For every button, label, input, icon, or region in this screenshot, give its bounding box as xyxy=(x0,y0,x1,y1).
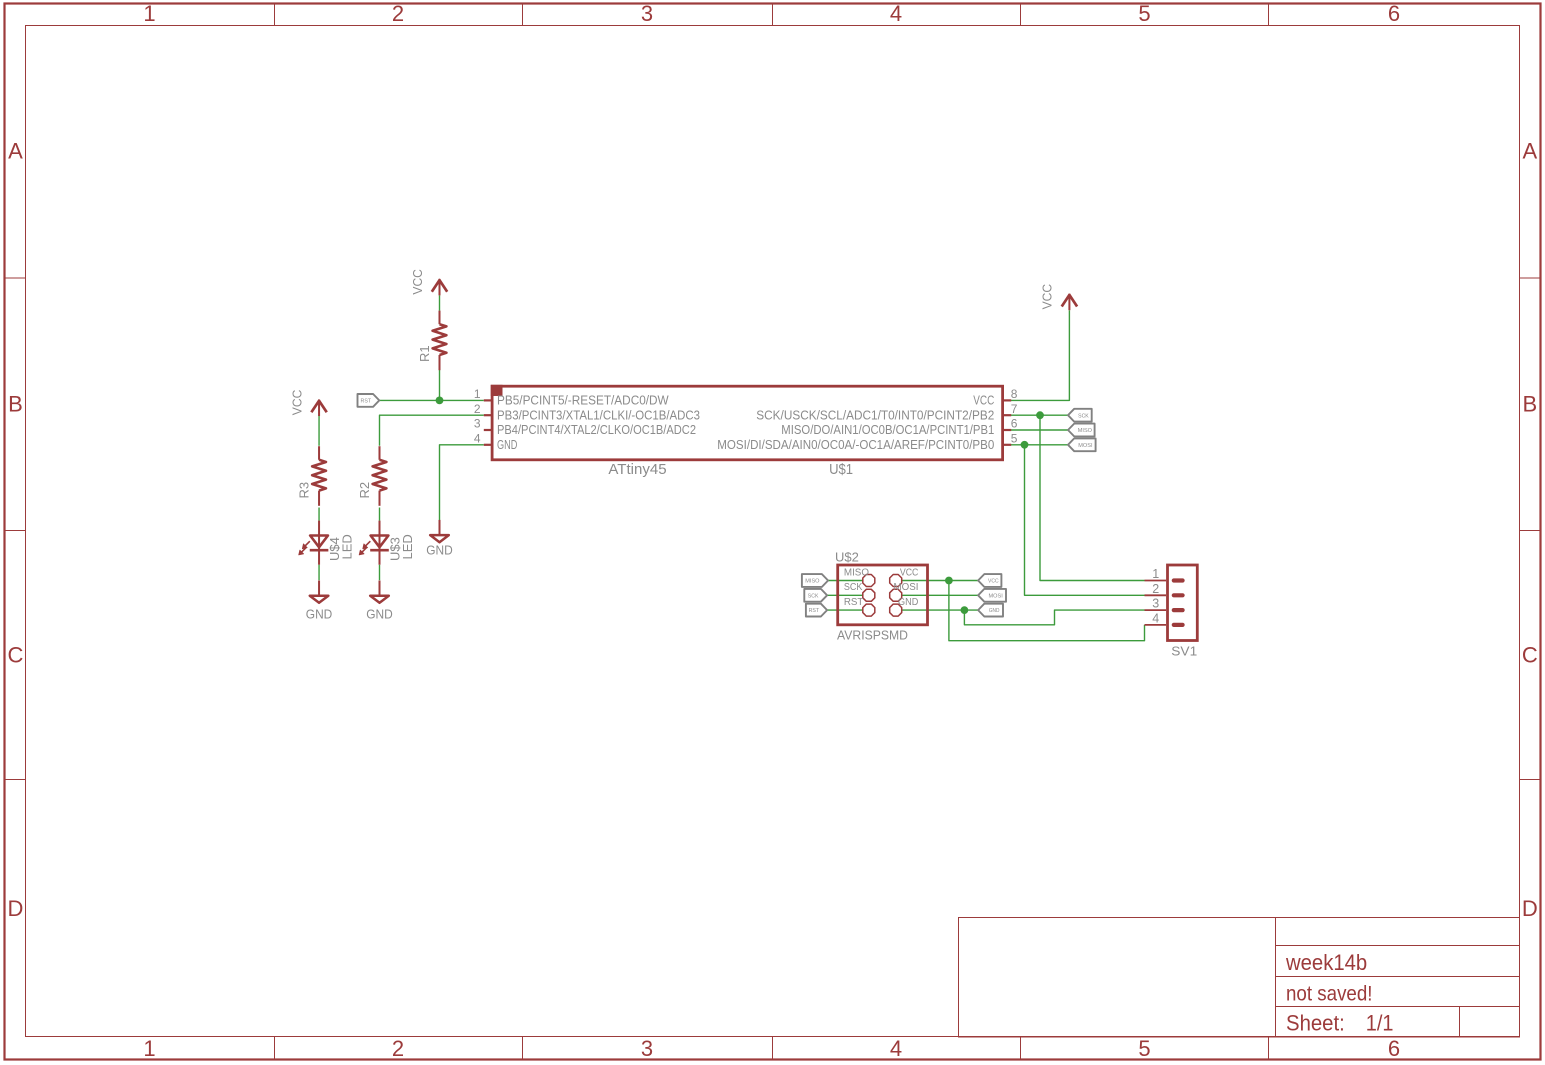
wire RST net to IC pin 1 xyxy=(379,399,484,401)
wire IC pin 7 to SCK flag xyxy=(1011,414,1069,416)
svg-text:SCK: SCK xyxy=(1078,413,1089,419)
junction pin5 MOSI xyxy=(1021,441,1029,449)
svg-text:SV1: SV1 xyxy=(1171,644,1197,659)
svg-text:6: 6 xyxy=(1388,1036,1400,1061)
svg-text:MISO: MISO xyxy=(1078,428,1093,434)
junction VCC net xyxy=(945,577,953,585)
svg-text:R1: R1 xyxy=(417,345,432,362)
svg-text:MOSI: MOSI xyxy=(989,593,1004,599)
svg-text:LED: LED xyxy=(340,534,355,559)
svg-text:PB5/PCINT5/-RESET/ADC0/DW: PB5/PCINT5/-RESET/ADC0/DW xyxy=(497,394,669,408)
LED U$4 xyxy=(299,521,355,565)
svg-text:GND: GND xyxy=(366,606,393,621)
junction GND net xyxy=(961,606,969,614)
svg-text:RST: RST xyxy=(809,608,820,614)
svg-text:3: 3 xyxy=(1152,597,1159,611)
net flag VCC at U$2 xyxy=(978,574,1001,587)
supply VCC (above R1) xyxy=(410,269,447,295)
svg-text:1: 1 xyxy=(143,1,155,26)
net flag RST at U$2 xyxy=(806,604,827,617)
svg-text:1: 1 xyxy=(1152,567,1159,581)
svg-text:ATtiny45: ATtiny45 xyxy=(608,461,666,478)
net flag MISO at IC pin 6 xyxy=(1068,424,1095,437)
svg-text:MOSI: MOSI xyxy=(1078,443,1093,449)
svg-text:1: 1 xyxy=(474,387,481,401)
net flag RST at IC pin 1 xyxy=(358,394,380,407)
ground GND under LED U$3 xyxy=(366,581,393,622)
wire MISO flag to U$2 xyxy=(828,580,862,582)
svg-text:SCK/USCK/SCL/ADC1/T0/INT0/PCIN: SCK/USCK/SCL/ADC1/T0/INT0/PCINT2/PB2 xyxy=(756,408,994,422)
svg-text:3: 3 xyxy=(474,417,481,431)
IC U$1 ATtiny45 xyxy=(474,385,1018,478)
svg-text:VCC: VCC xyxy=(410,269,425,295)
ground GND at IC pin 4 xyxy=(426,520,453,558)
wire MOSI net to SV1 pin 2 xyxy=(1025,445,1145,596)
wire LED U$4 to GND xyxy=(318,565,320,581)
svg-text:R2: R2 xyxy=(357,482,372,499)
resistor R1 xyxy=(417,311,446,371)
junction pin7 SCK xyxy=(1036,411,1044,419)
svg-text:GND: GND xyxy=(898,597,918,608)
svg-text:MOSI/DI/SDA/AIN0/OC0A/-OC1A/AR: MOSI/DI/SDA/AIN0/OC0A/-OC1A/AREF/PCINT0/… xyxy=(717,438,994,452)
svg-text:2: 2 xyxy=(392,1036,404,1061)
wire IC pin 8 to VCC xyxy=(1011,310,1070,400)
svg-text:D: D xyxy=(1522,896,1538,921)
svg-text:1/1: 1/1 xyxy=(1366,1010,1394,1035)
svg-text:R3: R3 xyxy=(297,482,312,499)
svg-text:SCK: SCK xyxy=(844,582,863,593)
wire IC pin 5 to MOSI flag xyxy=(1011,444,1069,446)
svg-text:PB4/PCINT4/XTAL2/CLKO/OC1B/ADC: PB4/PCINT4/XTAL2/CLKO/OC1B/ADC2 xyxy=(497,423,696,437)
svg-text:4: 4 xyxy=(1152,612,1159,626)
svg-text:5: 5 xyxy=(1138,1036,1150,1061)
wire U$2 GND to flag xyxy=(902,609,978,611)
svg-text:4: 4 xyxy=(474,432,481,446)
svg-text:A: A xyxy=(8,139,23,164)
svg-text:2: 2 xyxy=(474,402,481,416)
svg-text:not saved!: not saved! xyxy=(1286,982,1373,1005)
resistor R3 xyxy=(297,446,326,506)
wire R1 to pin1 junction xyxy=(439,370,441,400)
svg-text:3: 3 xyxy=(641,1036,653,1061)
svg-text:SCK: SCK xyxy=(808,593,819,599)
net flag MISO at U$2 xyxy=(802,574,828,587)
svg-text:GND: GND xyxy=(306,606,333,621)
svg-text:VCC: VCC xyxy=(900,567,919,578)
svg-text:6: 6 xyxy=(1388,1,1400,26)
svg-text:8: 8 xyxy=(1011,387,1018,401)
svg-text:GND: GND xyxy=(426,543,453,558)
svg-text:6: 6 xyxy=(1011,417,1018,431)
wire GND net to SV1 pin 3 xyxy=(964,610,1144,625)
wire VCC to R1 xyxy=(439,295,441,310)
net flag SCK at U$2 xyxy=(804,589,827,602)
svg-text:PB3/PCINT3/XTAL1/CLKI/-OC1B/AD: PB3/PCINT3/XTAL1/CLKI/-OC1B/ADC3 xyxy=(497,408,700,422)
wire R2 to LED U$3 xyxy=(379,508,381,521)
svg-text:RST: RST xyxy=(361,399,372,405)
svg-text:B: B xyxy=(8,392,23,417)
svg-text:VCC: VCC xyxy=(1040,284,1055,310)
connector SV1 xyxy=(1145,565,1198,659)
svg-text:LED: LED xyxy=(400,534,415,559)
svg-text:AVRISPSMD: AVRISPSMD xyxy=(837,628,908,643)
svg-text:Sheet:: Sheet: xyxy=(1286,1010,1345,1035)
svg-text:MISO: MISO xyxy=(844,567,869,578)
wire RST flag to U$2 xyxy=(827,609,862,611)
wire U$2 VCC to flag xyxy=(902,580,978,582)
svg-text:4: 4 xyxy=(890,1,902,26)
svg-text:MISO/DO/AIN1/OC0B/OC1A/PCINT1/: MISO/DO/AIN1/OC0B/OC1A/PCINT1/PB1 xyxy=(781,423,994,437)
svg-text:D: D xyxy=(8,896,24,921)
LED U$3 xyxy=(359,521,415,565)
svg-text:GND: GND xyxy=(989,608,1000,614)
svg-text:B: B xyxy=(1522,392,1537,417)
net flag MOSI at IC pin 5 xyxy=(1068,438,1096,451)
svg-text:VCC: VCC xyxy=(289,390,304,416)
title block xyxy=(959,918,1520,1038)
wire IC pin 6 to MISO flag xyxy=(1011,429,1069,431)
svg-text:MISO: MISO xyxy=(805,579,820,585)
svg-text:C: C xyxy=(8,643,24,668)
svg-text:week14b: week14b xyxy=(1285,950,1367,975)
svg-text:5: 5 xyxy=(1138,1,1150,26)
wire SCK net to SV1 pin 1 xyxy=(1040,415,1145,580)
supply VCC (left, above R3) xyxy=(289,390,326,416)
svg-text:MOSI: MOSI xyxy=(894,582,919,593)
resistor R2 xyxy=(357,446,386,506)
svg-text:VCC: VCC xyxy=(973,394,994,408)
svg-text:7: 7 xyxy=(1011,402,1018,416)
junction pin1/R1/RST xyxy=(436,397,444,405)
svg-text:GND: GND xyxy=(497,438,517,452)
svg-text:VCC: VCC xyxy=(988,579,999,585)
wire VCC net to SV1 pin 4 xyxy=(949,581,1145,641)
svg-text:U$1: U$1 xyxy=(829,461,853,478)
svg-text:C: C xyxy=(1522,643,1538,668)
svg-text:2: 2 xyxy=(392,1,404,26)
svg-text:1: 1 xyxy=(143,1036,155,1061)
connector U$2 AVRISPSMD xyxy=(835,550,928,643)
wire VCC to R3 xyxy=(318,415,320,445)
supply VCC (right, pin 8) xyxy=(1040,284,1077,310)
svg-text:A: A xyxy=(1522,139,1537,164)
net flag SCK at IC pin 7 xyxy=(1068,409,1092,422)
wire LED U$3 to GND xyxy=(379,565,381,581)
wire R2 to IC pin 2 xyxy=(380,415,484,446)
svg-text:4: 4 xyxy=(890,1036,902,1061)
svg-text:5: 5 xyxy=(1011,432,1018,446)
svg-text:3: 3 xyxy=(641,1,653,26)
wire SCK flag to U$2 xyxy=(827,594,862,596)
wire R3 to LED U$4 xyxy=(318,508,320,521)
ground GND under LED U$4 xyxy=(306,581,333,622)
svg-text:2: 2 xyxy=(1152,582,1159,596)
svg-text:RST: RST xyxy=(844,597,864,608)
net flag GND at U$2 xyxy=(978,604,1003,617)
net flag MOSI at U$2 xyxy=(978,589,1006,602)
wire U$2 MOSI to flag xyxy=(902,594,978,596)
svg-text:U$2: U$2 xyxy=(835,550,859,565)
wire IC pin 4 to GND xyxy=(440,445,484,521)
